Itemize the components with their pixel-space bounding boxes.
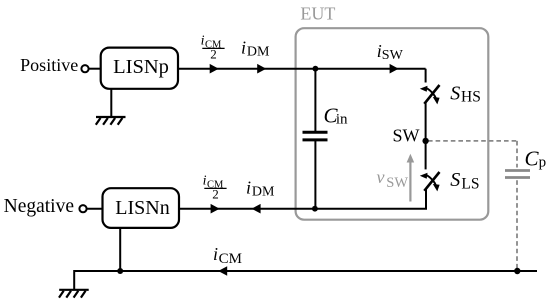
svg-text:DM: DM	[247, 45, 270, 60]
svg-text:i: i	[201, 33, 205, 48]
svg-text:Negative: Negative	[4, 196, 74, 217]
svg-text:HS: HS	[461, 89, 481, 106]
svg-text:C: C	[525, 146, 540, 170]
svg-text:Positive: Positive	[20, 55, 78, 75]
svg-text:DM: DM	[252, 185, 275, 200]
svg-text:p: p	[539, 155, 547, 171]
svg-text:LISNn: LISNn	[115, 197, 169, 219]
svg-text:2: 2	[212, 187, 219, 202]
svg-text:SW: SW	[393, 126, 420, 146]
svg-text:in: in	[336, 111, 348, 127]
svg-text:i: i	[246, 178, 251, 198]
svg-text:S: S	[450, 169, 460, 191]
svg-text:LISNp: LISNp	[113, 56, 169, 78]
svg-text:S: S	[450, 83, 460, 105]
svg-text:CM: CM	[219, 251, 242, 267]
svg-text:LS: LS	[461, 175, 479, 192]
svg-text:i: i	[203, 173, 207, 188]
svg-text:EUT: EUT	[300, 4, 335, 24]
svg-text:SW: SW	[382, 48, 404, 63]
svg-text:SW: SW	[386, 175, 408, 191]
svg-text:v: v	[377, 167, 385, 187]
svg-text:i: i	[241, 38, 246, 58]
svg-text:2: 2	[210, 47, 217, 62]
svg-text:i: i	[213, 244, 218, 264]
